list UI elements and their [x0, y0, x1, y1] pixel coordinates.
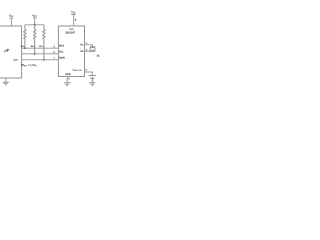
ground under chip [64, 83, 70, 86]
ground under battery [89, 83, 95, 86]
pullup rail [25, 24, 44, 26]
VCC symbol above rail [33, 18, 37, 25]
svg-text:µP: µP [4, 47, 10, 52]
junction dot RPU1/SDA [24, 47, 26, 49]
junction dot RPU2/SCL [34, 53, 36, 55]
wire SDA (pin5) [22, 47, 59, 49]
svg-text:SDA: SDA [59, 45, 64, 48]
VCC symbol above uP [10, 18, 14, 26]
svg-text:VCC: VCC [71, 11, 76, 14]
svg-text:VCC: VCC [9, 15, 14, 18]
wire SCL (pin6) [22, 53, 59, 55]
resistor RPU2 [34, 25, 36, 54]
wire SQW (pin7) [22, 59, 59, 61]
svg-text:GND: GND [65, 73, 71, 76]
battery BT1 [89, 76, 96, 83]
X2 pin2 stub [85, 50, 96, 52]
svg-text:SCL: SCL [59, 50, 64, 53]
resistor RPU3 [43, 25, 45, 60]
svg-text:VBACKUP: VBACKUP [72, 69, 82, 72]
ground under uP [3, 78, 9, 85]
microprocessor box uP (clipped at left canvas edge) [0, 26, 22, 78]
X1 pin1 stub and crystal wire [85, 45, 93, 47]
VCC pin8 stub [71, 15, 75, 27]
svg-text:VCC: VCC [32, 14, 37, 17]
resistor RPU1 [24, 25, 26, 48]
chip box DS1307 [58, 26, 84, 77]
crystal Y1 [90, 47, 95, 51]
svg-text:DS1307: DS1307 [65, 31, 75, 34]
svg-text:SQW: SQW [59, 56, 66, 59]
svg-text:32.768kHz: 32.768kHz [97, 54, 101, 57]
junction dot rail/VCC [34, 24, 36, 26]
junction dot RPU3/SQW [43, 59, 45, 61]
GND pin4 stub [66, 77, 68, 83]
svg-text:SQW: SQW [13, 59, 18, 62]
VBAT pin3 stub [85, 72, 93, 76]
